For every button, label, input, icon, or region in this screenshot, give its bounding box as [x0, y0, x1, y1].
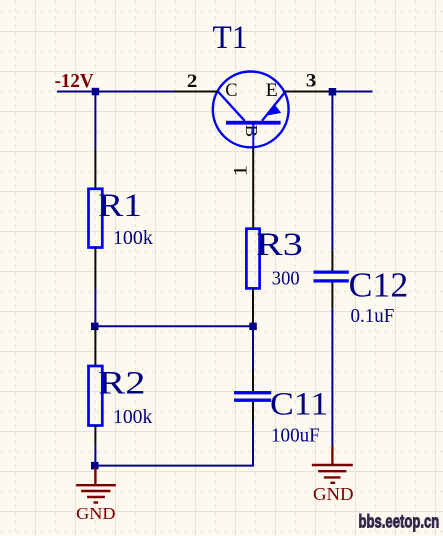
wire: junction down toward R1: [94, 92, 96, 150]
watermark bbs.eetop.cn: [359, 512, 440, 532]
label C12: [349, 267, 409, 305]
ground symbol GND (left): [76, 467, 116, 503]
pin: C12 bottom pin: [331, 283, 333, 309]
pin: R1 pin 2: [94, 248, 96, 290]
wire: R2 to ground node: [94, 445, 96, 465]
capacitor C11: [234, 393, 271, 401]
pin: R1 pin 1: [94, 149, 96, 189]
wire: mid horizontal (R1/R2 node to R3/C11 node): [95, 325, 253, 327]
capacitor C12: [314, 272, 349, 281]
svg-text:T1: T1: [213, 20, 248, 56]
value 300: [272, 269, 300, 290]
label T1: [213, 20, 248, 56]
svg-text:C: C: [225, 81, 237, 101]
label R2: [98, 365, 145, 401]
pin 1 of T1 (base, inside circle blue): [252, 125, 254, 149]
pin 3 of T1: [284, 91, 331, 93]
transistor T1 emitter arrow: [266, 104, 281, 116]
svg-text:100uF: 100uF: [271, 425, 320, 446]
pin number 1 (rotated): [232, 165, 252, 177]
pin: C11 bottom pin: [252, 402, 254, 423]
svg-text:C12: C12: [349, 267, 409, 305]
label R1: [98, 188, 142, 224]
svg-text:-12V: -12V: [55, 71, 94, 92]
wire: R1 to mid node: [94, 289, 96, 326]
wire: pin3 node to right (stub): [332, 91, 372, 93]
label R3: [256, 227, 303, 263]
value 100uF: [271, 425, 320, 446]
label GND (right): [313, 484, 354, 504]
resistor R3: [246, 229, 259, 289]
pin number 3: [306, 72, 317, 92]
svg-text:R3: R3: [256, 227, 303, 263]
pin label E: [266, 81, 278, 101]
resistor R2: [89, 366, 103, 426]
svg-text:2: 2: [187, 72, 198, 92]
junction: R3 / C11 node: [249, 323, 256, 331]
transistor T1 emitter stroke: [262, 92, 286, 121]
svg-text:100k: 100k: [113, 407, 153, 428]
svg-text:R1: R1: [98, 188, 142, 224]
svg-text:300: 300: [272, 269, 300, 290]
pin: R2 pin 2: [94, 426, 96, 446]
resistor R1: [89, 189, 103, 248]
wire: pin3 node down to C12: [331, 92, 333, 251]
pin: C11 top pin: [252, 370, 254, 391]
value 0.1uF: [351, 306, 395, 327]
svg-text:0.1uF: 0.1uF: [351, 306, 395, 327]
transistor T1 base bar: [226, 121, 281, 125]
junction: -12V rail / R1 node: [92, 88, 100, 96]
label GND (left): [76, 504, 115, 523]
pin label B (rotated): [242, 125, 261, 138]
value 100k (R1): [113, 228, 153, 249]
svg-text:C11: C11: [270, 387, 328, 423]
transistor T1 collector stroke: [218, 92, 245, 121]
pin 1 of T1 (black segment down to R3): [252, 147, 254, 228]
junction: mid-left node: [91, 323, 99, 331]
svg-text:GND: GND: [313, 484, 354, 504]
svg-text:3: 3: [306, 72, 317, 92]
value 100k (R2): [113, 407, 153, 428]
svg-text:bbs.eetop.cn: bbs.eetop.cn: [359, 512, 440, 532]
svg-text:E: E: [266, 81, 278, 101]
pin: R2 pin 1: [94, 326, 96, 366]
wire: C12 down to right ground: [331, 308, 333, 446]
power net label -12V: [55, 71, 94, 92]
pin: R3 pin 2 down to mid node: [252, 288, 254, 326]
svg-text:1: 1: [232, 165, 252, 177]
svg-text:B: B: [242, 125, 261, 138]
transistor T1 body circle: [213, 72, 289, 148]
junction: T1 pin3 / C12 node: [329, 88, 337, 96]
svg-text:100k: 100k: [113, 228, 153, 249]
label C11: [270, 387, 328, 423]
svg-text:GND: GND: [76, 504, 115, 523]
junction: left ground node: [91, 462, 99, 470]
wire: bottom horizontal from ground node up to C11: [95, 423, 253, 466]
svg-text:R2: R2: [98, 365, 145, 401]
pin 2 of T1: [174, 91, 218, 93]
pin label C: [225, 81, 237, 101]
pin number 2: [187, 72, 198, 92]
wire: node down to C11: [252, 326, 254, 370]
pin: C12 top pin: [331, 250, 333, 270]
wire: -12V rail to T1 pin 2: [57, 91, 174, 93]
ground symbol GND (right): [312, 446, 353, 483]
